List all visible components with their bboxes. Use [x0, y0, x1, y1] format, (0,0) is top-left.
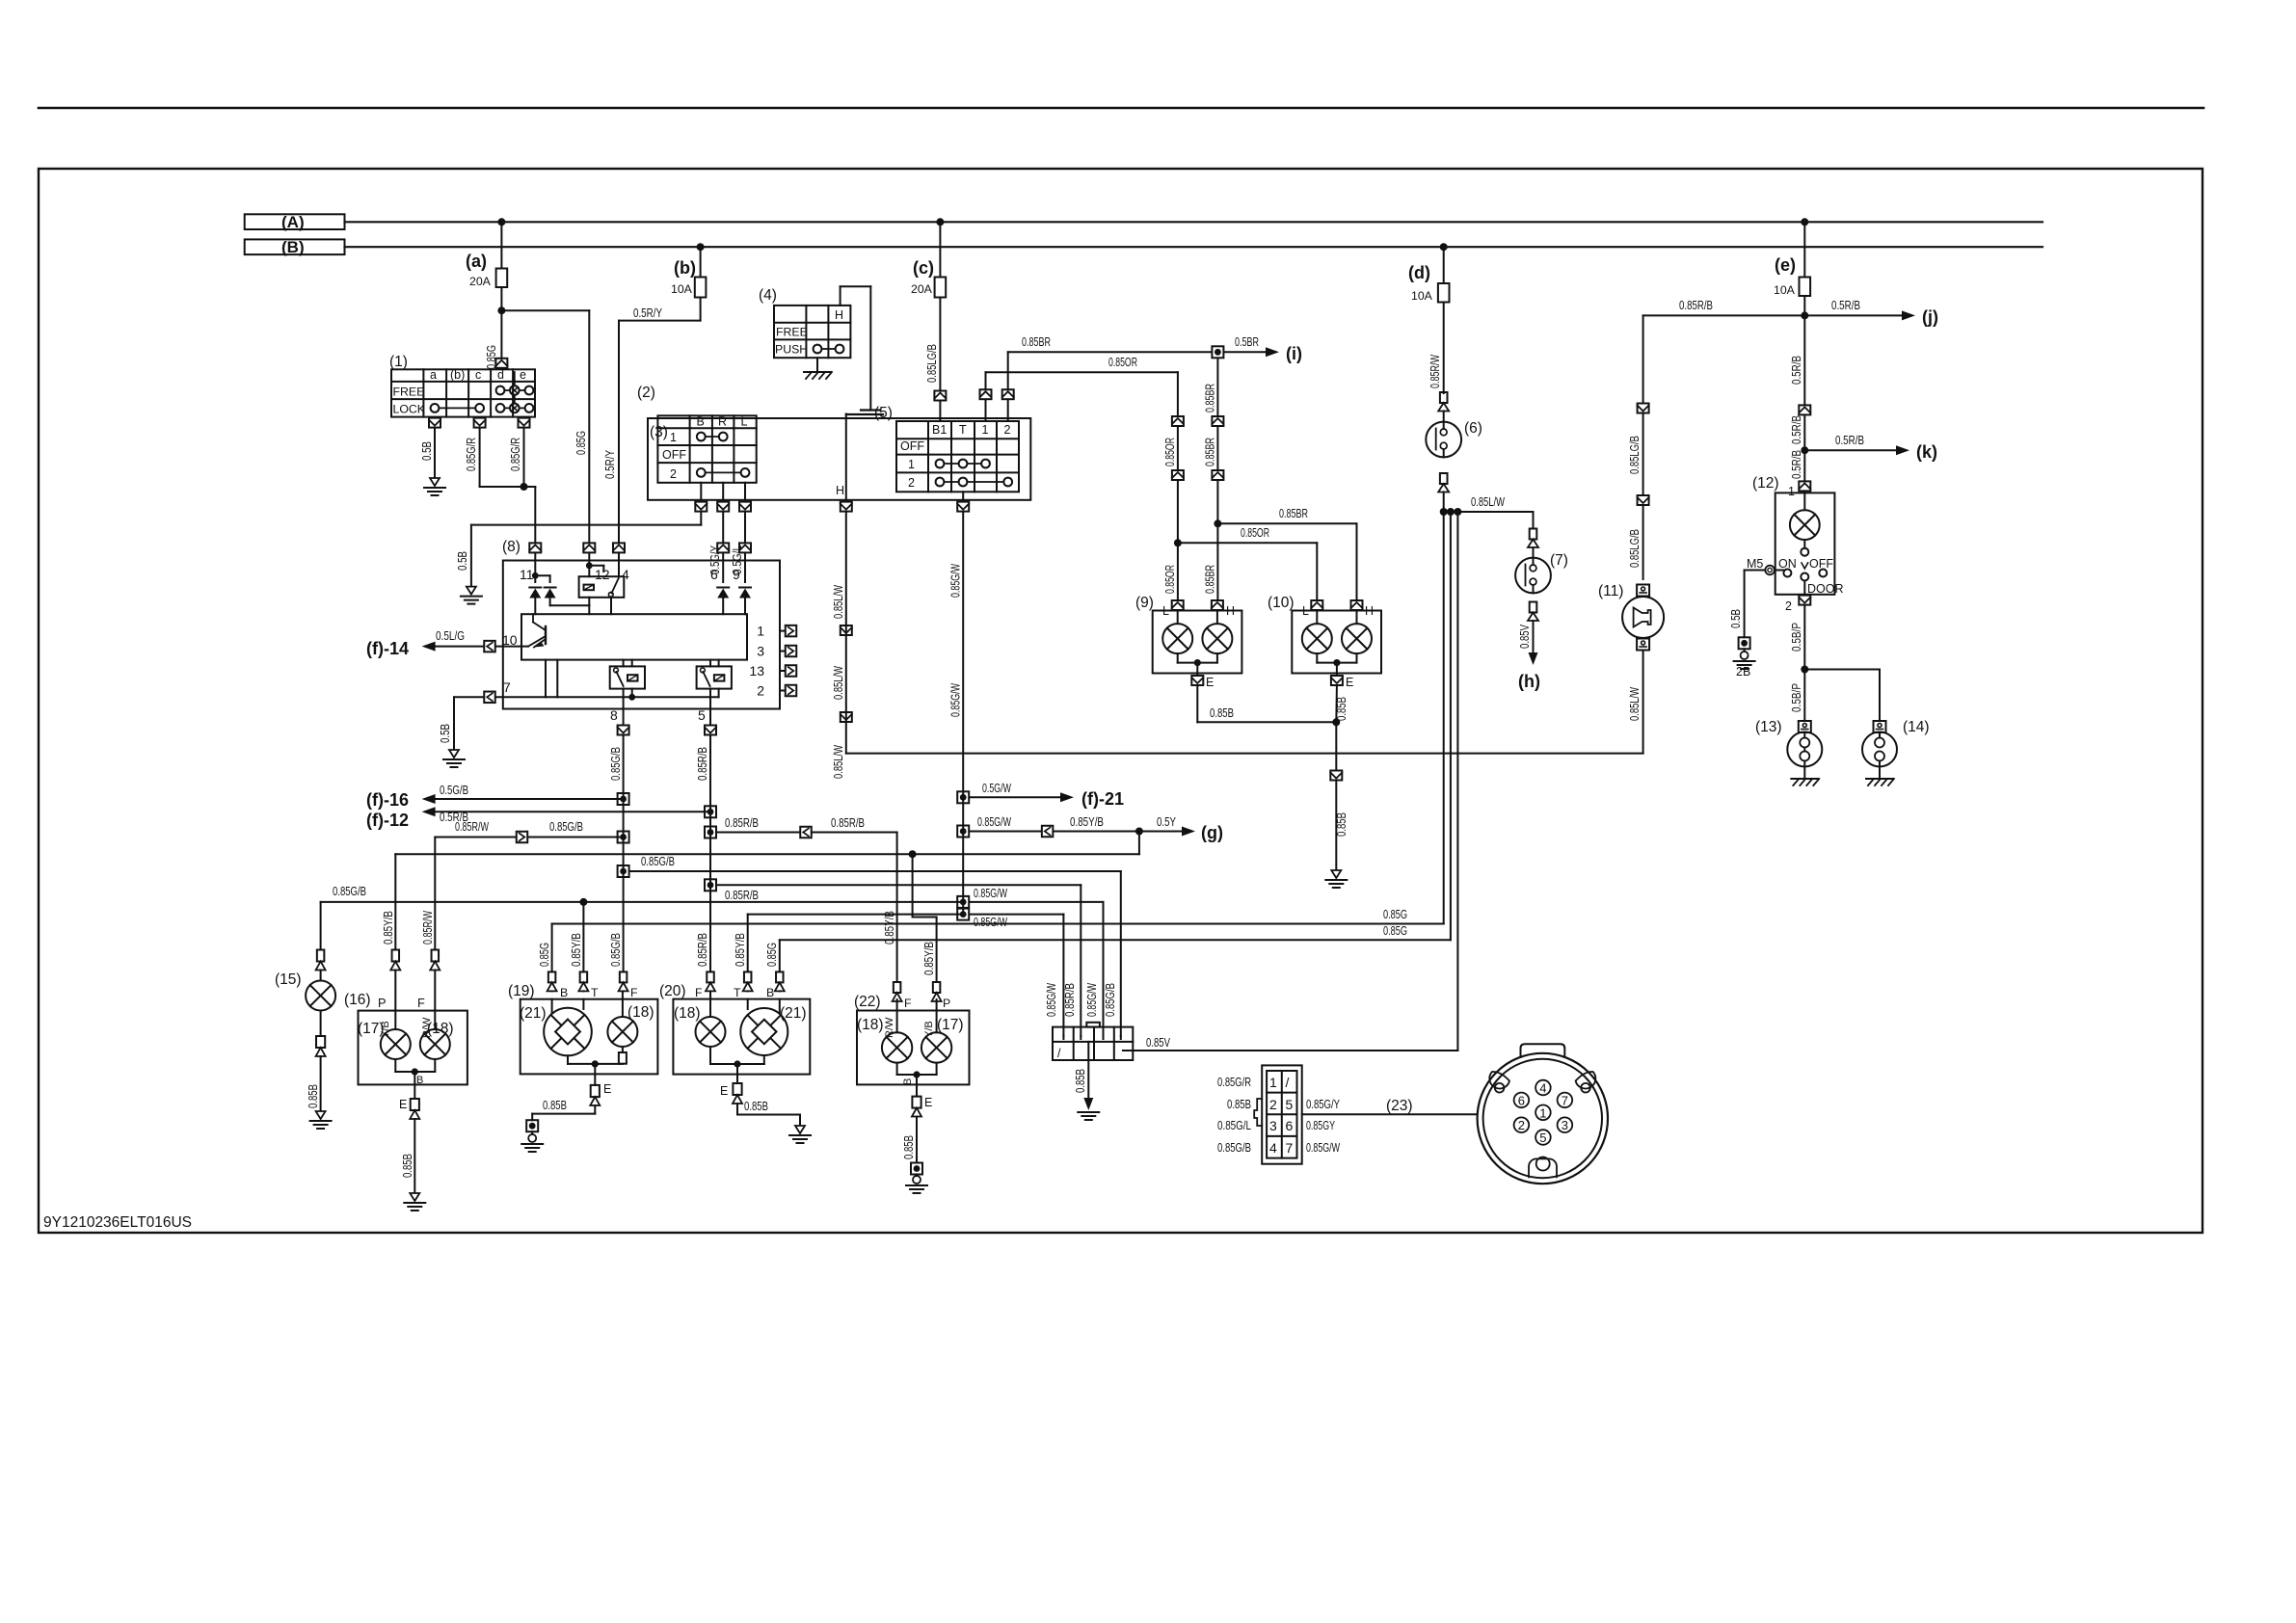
riser B1 — [939, 418, 941, 421]
svg-text:(22): (22) — [854, 994, 881, 1010]
svg-text:(10): (10) — [1268, 595, 1295, 611]
ground under (1) — [430, 478, 440, 486]
svg-text:0.85G: 0.85G — [1383, 924, 1407, 938]
wire 0.85G/B splice to block — [618, 865, 629, 877]
node (19)T tap — [579, 898, 587, 906]
svg-text:6: 6 — [710, 567, 718, 582]
svg-text:0.85OR: 0.85OR — [1163, 565, 1177, 594]
svg-text:(6): (6) — [1464, 420, 1482, 437]
svg-text:0.85B: 0.85B — [543, 1099, 567, 1112]
wire B to ground 0.5B — [700, 513, 702, 525]
svg-text:(g): (g) — [1201, 823, 1223, 842]
wire 0.85R/W — [435, 837, 516, 838]
svg-text:0.5R/B: 0.5R/B — [1790, 450, 1803, 479]
svg-text:/: / — [1286, 1075, 1290, 1090]
svg-text:B: B — [902, 1078, 914, 1085]
node (22)P tap — [909, 850, 917, 858]
node E (10) — [1333, 659, 1340, 666]
svg-text:(i): (i) — [1286, 344, 1302, 363]
svg-text:E: E — [924, 1096, 932, 1109]
svg-text:2: 2 — [908, 476, 915, 490]
svg-text:10A: 10A — [1411, 289, 1433, 303]
wire 0.5B to ground — [434, 429, 436, 478]
svg-text:1: 1 — [670, 431, 677, 444]
svg-text:(9): (9) — [1135, 595, 1154, 611]
svg-text:0.5R/Y: 0.5R/Y — [603, 449, 617, 479]
svg-text:1: 1 — [908, 458, 915, 471]
long wire horn to H — [846, 753, 1643, 755]
bulb (17) — [394, 1011, 396, 1029]
svg-text:0.85BR: 0.85BR — [1279, 507, 1308, 520]
node bus B / fuse d — [1440, 243, 1448, 251]
svg-text:6: 6 — [1518, 1093, 1525, 1107]
pin 11 wiring — [534, 553, 536, 582]
svg-text:0.85Y/B: 0.85Y/B — [1070, 815, 1104, 829]
svg-text:0.5R/Y: 0.5R/Y — [633, 306, 663, 320]
svg-text:(b): (b) — [674, 258, 696, 278]
svg-text:R: R — [718, 415, 727, 429]
block ground 0.85B — [1087, 1042, 1089, 1104]
svg-text:0.85LG/B: 0.85LG/B — [925, 344, 939, 383]
(20)B drop — [779, 940, 781, 971]
pins of (23) — [1535, 1080, 1551, 1096]
contacts (5) row 2 — [936, 478, 945, 487]
svg-text:H: H — [835, 308, 843, 322]
svg-text:0.85R/B: 0.85R/B — [725, 816, 759, 830]
svg-text:(A): (A) — [281, 213, 305, 231]
wire 0.85L/W from horn — [1642, 651, 1644, 754]
node bus B / fuse b — [697, 243, 705, 251]
wire 8 column 0.85G/B — [623, 736, 625, 972]
pin 4 wire — [618, 553, 620, 576]
pins 1 3 13 2 — [780, 630, 785, 632]
terminal M5 — [1765, 566, 1775, 575]
pin 2 connector — [1803, 581, 1805, 595]
output relays in (8) — [610, 666, 645, 688]
svg-text:0.85R/B: 0.85R/B — [1679, 299, 1713, 312]
svg-text:0.85Y/B: 0.85Y/B — [883, 911, 896, 945]
node (k) — [1801, 446, 1808, 454]
svg-text:0.85G/W: 0.85G/W — [1085, 983, 1099, 1017]
svg-text:0.85G/B: 0.85G/B — [1104, 983, 1117, 1017]
fuse (e) 10A — [1803, 222, 1805, 277]
svg-text:B: B — [766, 986, 774, 999]
ground connector 2B — [1739, 637, 1750, 649]
svg-text:E: E — [399, 1098, 407, 1111]
bus wire A — [345, 221, 2043, 223]
svg-text:B1: B1 — [932, 423, 947, 437]
svg-text:0.85G/W: 0.85G/W — [977, 815, 1011, 829]
node E (9) — [1194, 659, 1201, 666]
svg-text:B: B — [560, 986, 568, 999]
connector above (1) — [495, 359, 507, 368]
svg-text:0.85G/B: 0.85G/B — [641, 855, 675, 868]
M5 ground wire 0.5B — [1745, 570, 1766, 572]
svg-text:5: 5 — [1539, 1131, 1546, 1145]
wire 0.5G/Y — [722, 513, 724, 543]
svg-text:(12): (12) — [1752, 475, 1779, 492]
svg-text:0.85L/W: 0.85L/W — [832, 745, 845, 779]
svg-text:0.85Y/B: 0.85Y/B — [922, 942, 936, 975]
wire 0.85G/W (T column) — [962, 513, 964, 915]
connectors below (1) — [429, 418, 441, 428]
svg-text:0.85G: 0.85G — [1383, 908, 1407, 921]
svg-text:3: 3 — [1562, 1118, 1568, 1132]
svg-text:(17): (17) — [937, 1017, 964, 1033]
svg-text:0.85L/W: 0.85L/W — [832, 585, 845, 619]
svg-text:(f)-16: (f)-16 — [366, 790, 409, 810]
svg-text:0.85G/R: 0.85G/R — [509, 438, 522, 471]
riser col 2 — [1007, 400, 1009, 421]
svg-text:B: B — [416, 1075, 423, 1086]
svg-text:0.85B: 0.85B — [307, 1084, 320, 1108]
svg-text:0.85BR: 0.85BR — [1204, 384, 1217, 412]
trailer socket (23) — [1478, 1053, 1608, 1184]
svg-text:(e): (e) — [1775, 255, 1796, 275]
svg-text:FREE: FREE — [776, 326, 808, 339]
svg-text:(18): (18) — [627, 1004, 654, 1021]
wire 0.85V from block — [1123, 1050, 1133, 1051]
pin 12 wiring — [588, 553, 590, 576]
wire 0.5R/B down — [1803, 315, 1805, 404]
svg-text:M5: M5 — [1747, 557, 1763, 571]
svg-text:(h): (h) — [1518, 672, 1540, 691]
svg-text:0.85B: 0.85B — [1335, 812, 1348, 837]
svg-text:c: c — [475, 368, 481, 382]
mount holes — [1489, 1072, 1509, 1089]
wire 0.5B/P from (12) — [1803, 606, 1805, 721]
svg-text:(8): (8) — [502, 539, 521, 555]
wire 0.85BR horizontal + (i) — [1212, 346, 1223, 358]
node B (16) — [412, 1068, 418, 1075]
amplifier block in (8) — [521, 614, 747, 659]
svg-text:8: 8 — [610, 707, 618, 723]
svg-text:0.5R/B: 0.5R/B — [1790, 356, 1803, 385]
svg-text:d: d — [497, 368, 504, 382]
svg-text:0.5B: 0.5B — [420, 441, 434, 461]
ground (14) — [1866, 778, 1893, 780]
svg-text:0.85B: 0.85B — [1210, 706, 1234, 720]
svg-text:0.85L/W: 0.85L/W — [1471, 495, 1505, 509]
svg-text:0.85R/B: 0.85R/B — [831, 816, 865, 830]
svg-text:(15): (15) — [275, 971, 302, 988]
wire 0.85R/B to horn column — [1643, 314, 1805, 316]
svg-text:9: 9 — [733, 567, 740, 582]
connector block — [1086, 1023, 1100, 1027]
svg-text:(18): (18) — [674, 1005, 701, 1022]
svg-text:0.85G/R: 0.85G/R — [465, 438, 478, 471]
svg-text:0.5R/B: 0.5R/B — [1835, 434, 1864, 447]
svg-text:0.85R/B: 0.85R/B — [725, 889, 759, 902]
wire 0.85B to ground — [1335, 686, 1338, 722]
svg-text:0.5BR: 0.5BR — [1235, 335, 1259, 349]
svg-text:0.85OR: 0.85OR — [1108, 356, 1137, 369]
svg-text:7: 7 — [1562, 1093, 1568, 1107]
svg-text:0.5R/B: 0.5R/B — [1831, 299, 1860, 312]
svg-text:0.85B: 0.85B — [401, 1154, 414, 1178]
svg-text:0.85R/B: 0.85R/B — [1063, 983, 1077, 1017]
svg-text:6: 6 — [1286, 1118, 1294, 1133]
ground under (4) — [816, 358, 818, 370]
svg-text:0.5Y: 0.5Y — [1157, 815, 1177, 829]
svg-text:3: 3 — [757, 644, 764, 659]
svg-text:0.85G: 0.85G — [574, 431, 588, 455]
switch contacts in (12) — [1783, 570, 1791, 577]
contacts (3) row 2 — [697, 468, 706, 477]
svg-text:F: F — [630, 986, 638, 999]
svg-text:5: 5 — [1286, 1097, 1294, 1112]
bus label (A) — [245, 214, 345, 229]
pin 1 connector — [1799, 481, 1810, 491]
svg-text:(c): (c) — [913, 258, 934, 278]
svg-text:(16): (16) — [344, 992, 371, 1008]
connector on 0.85LG/B — [934, 391, 946, 401]
svg-text:0.85R/W: 0.85R/W — [455, 820, 489, 834]
contacts (5) row 1 — [936, 460, 945, 468]
svg-text:0.5L/G: 0.5L/G — [436, 629, 465, 643]
svg-text:0.85Y/B: 0.85Y/B — [734, 933, 747, 967]
wire 0.85G/R e — [523, 429, 525, 487]
wire 0.85G no.2 — [1450, 512, 1452, 940]
svg-text:0.85R/W: 0.85R/W — [1428, 355, 1442, 388]
svg-text:0.85R/B: 0.85R/B — [696, 933, 709, 967]
svg-text:(7): (7) — [1550, 552, 1568, 569]
fuse (b) 10A — [700, 247, 702, 277]
svg-text:0.85V: 0.85V — [1518, 624, 1532, 649]
svg-text:E: E — [1206, 676, 1214, 689]
svg-text:0.85G/B: 0.85G/B — [1217, 1141, 1251, 1155]
node 0.5B/P — [1801, 666, 1808, 674]
svg-text:(k): (k) — [1916, 442, 1937, 462]
svg-text:0.85BR: 0.85BR — [1022, 335, 1051, 349]
svg-text:0.85L/W: 0.85L/W — [832, 666, 845, 700]
svg-text:0.85G/R: 0.85G/R — [1217, 1076, 1251, 1089]
relay in (8) — [579, 576, 625, 598]
svg-text:2: 2 — [670, 467, 677, 481]
svg-text:2: 2 — [1518, 1118, 1525, 1132]
branch to (14) — [1804, 669, 1880, 671]
wire 0.85B from (9) — [1196, 686, 1198, 722]
wire 0.5G/L — [744, 513, 746, 543]
svg-text:2: 2 — [1785, 599, 1792, 613]
svg-text:0.85G/W: 0.85G/W — [1045, 983, 1058, 1017]
top rule — [39, 107, 2203, 110]
svg-text:0.85G: 0.85G — [538, 943, 551, 967]
wire 0.85G branch to (8) pin12 — [501, 309, 589, 311]
svg-text:2B: 2B — [1736, 665, 1750, 678]
svg-text:5: 5 — [698, 707, 706, 723]
node bus A / fuse c — [936, 218, 944, 226]
pin 7 — [484, 692, 495, 704]
svg-text:0.85G/B: 0.85G/B — [609, 933, 623, 967]
contacts (4) — [814, 345, 822, 354]
svg-text:0.85G/B: 0.85G/B — [333, 885, 366, 898]
svg-text:9Y1210236ELT016US: 9Y1210236ELT016US — [43, 1214, 192, 1231]
svg-text:0.85G/Y: 0.85G/Y — [1306, 1098, 1340, 1111]
svg-text:PUSH: PUSH — [775, 343, 808, 357]
svg-text:4: 4 — [1539, 1081, 1546, 1096]
main border — [39, 169, 2203, 1233]
node G/R — [521, 483, 528, 491]
svg-text:11: 11 — [520, 567, 534, 582]
risers B R L — [700, 483, 702, 500]
riser col 1 — [985, 400, 987, 421]
svg-text:FREE: FREE — [393, 385, 425, 398]
svg-text:4: 4 — [622, 567, 629, 582]
fuse (a) 20A — [500, 222, 502, 268]
svg-text:(2): (2) — [637, 385, 655, 401]
svg-text:0.85BR: 0.85BR — [1204, 438, 1217, 466]
svg-text:10A: 10A — [671, 282, 693, 296]
svg-text:e: e — [520, 368, 526, 382]
svg-text:2: 2 — [1004, 423, 1011, 437]
node OR — [1174, 539, 1182, 546]
wire 0.85BR vertical — [1216, 359, 1218, 415]
svg-text:(13): (13) — [1755, 719, 1782, 735]
svg-text:(23): (23) — [1386, 1098, 1413, 1114]
connector on 0.5R/B — [1799, 405, 1810, 414]
svg-text:E: E — [720, 1084, 728, 1098]
svg-text:0.85B: 0.85B — [902, 1135, 916, 1159]
svg-text:0.85B: 0.85B — [1227, 1098, 1251, 1111]
wire 0.85G/B to (g) — [395, 853, 1139, 855]
wire 0.85R/B right of 5 — [705, 827, 716, 838]
svg-text:0.85LG/B: 0.85LG/B — [1628, 436, 1642, 474]
lamp in (12) — [1803, 492, 1805, 510]
svg-text:(19): (19) — [508, 983, 535, 999]
svg-text:a: a — [430, 368, 437, 382]
bulb (21) double — [544, 1008, 592, 1056]
svg-text:1: 1 — [757, 624, 764, 639]
connector T below (2) — [957, 502, 969, 512]
svg-text:0.85G: 0.85G — [765, 943, 779, 967]
svg-text:F: F — [695, 986, 703, 999]
svg-text:0.5B/P: 0.5B/P — [1790, 683, 1803, 712]
arrow (g) line — [957, 826, 969, 838]
fuse (c) 20A — [939, 222, 941, 277]
svg-text:0.85G/W: 0.85G/W — [974, 887, 1007, 900]
svg-text:(f)-21: (f)-21 — [1081, 789, 1124, 809]
svg-text:4: 4 — [1269, 1140, 1277, 1156]
wire 0.85R/B splice to block — [705, 879, 716, 891]
svg-text:0.5B: 0.5B — [439, 724, 452, 743]
node below fuse a — [497, 306, 505, 314]
svg-text:(11): (11) — [1598, 583, 1623, 599]
svg-text:1: 1 — [982, 423, 989, 437]
contacts (3) row 1 — [697, 433, 706, 441]
wire 0.85G/B from (15) — [321, 901, 964, 903]
node B (22) — [913, 1071, 920, 1078]
svg-text:0.5G/B: 0.5G/B — [440, 784, 468, 797]
arrow (k) — [1804, 449, 1896, 451]
svg-text:(b): (b) — [450, 368, 465, 382]
svg-text:E: E — [1346, 676, 1353, 689]
wire 0.85V vertical — [1456, 512, 1458, 1051]
riser T — [962, 492, 964, 500]
svg-text:DOOR: DOOR — [1807, 582, 1844, 596]
wire (4)H to horn button — [840, 286, 841, 306]
svg-text:0.85B: 0.85B — [1074, 1069, 1087, 1093]
svg-text:13: 13 — [749, 663, 764, 678]
svg-text:/: / — [1057, 1047, 1061, 1060]
wire 0.85Y/B (20)T — [748, 914, 964, 916]
wire 0.85G no.1 — [1443, 512, 1445, 924]
fuse (d) 10A — [1443, 247, 1445, 283]
svg-text:0.85GY: 0.85GY — [1306, 1119, 1335, 1132]
svg-text:0.85BR: 0.85BR — [1204, 565, 1217, 594]
transistor — [545, 626, 547, 644]
svg-text:0.85OR: 0.85OR — [1163, 438, 1177, 466]
svg-text:T: T — [591, 986, 599, 999]
wire 0.85LG/B down to horn — [1642, 315, 1644, 402]
svg-text:1: 1 — [1539, 1105, 1546, 1120]
svg-text:(20): (20) — [659, 983, 686, 999]
svg-text:E: E — [603, 1082, 611, 1096]
svg-text:(5): (5) — [874, 405, 893, 421]
svg-text:7: 7 — [503, 679, 511, 695]
arrow (f)-21 — [957, 791, 969, 803]
svg-text:0.85G/B: 0.85G/B — [549, 820, 583, 834]
pin table for (23) — [1262, 1065, 1302, 1163]
svg-text:20A: 20A — [469, 275, 492, 288]
svg-text:OFF: OFF — [662, 448, 686, 462]
svg-text:0.85Y/B: 0.85Y/B — [570, 933, 583, 967]
arrow (h) 0.85V — [1533, 621, 1535, 652]
svg-text:F: F — [417, 996, 425, 1010]
svg-text:(f)-12: (f)-12 — [366, 811, 409, 830]
svg-text:0.85OR: 0.85OR — [1241, 526, 1269, 540]
node 0.85L/W x3 — [1440, 508, 1448, 516]
svg-text:0.5B: 0.5B — [456, 551, 469, 571]
svg-text:1: 1 — [1788, 485, 1795, 498]
svg-text:3: 3 — [1269, 1118, 1277, 1133]
connectors below (2) B R L — [695, 502, 707, 512]
svg-text:0.5B/P: 0.5B/P — [1790, 623, 1803, 652]
svg-text:0.85G/W: 0.85G/W — [974, 916, 1007, 929]
svg-text:(d): (d) — [1408, 263, 1430, 282]
bulb (18) — [434, 1011, 436, 1029]
svg-text:0.85G/W: 0.85G/W — [949, 564, 963, 598]
bus label (B) — [245, 239, 345, 254]
switch (6) — [1440, 392, 1448, 403]
svg-text:P: P — [378, 996, 387, 1010]
(19)B drop — [551, 924, 553, 972]
bulb (18) in (19) — [622, 992, 624, 1017]
diodes — [529, 587, 541, 589]
svg-text:(j): (j) — [1922, 307, 1938, 327]
wire 0.85G to (1) — [500, 310, 502, 358]
svg-text:0.85L/W: 0.85L/W — [1628, 687, 1642, 721]
svg-text:(f)-14: (f)-14 — [366, 639, 409, 658]
svg-text:0.5R/B: 0.5R/B — [1790, 415, 1803, 444]
svg-text:2: 2 — [1269, 1097, 1277, 1112]
svg-text:0.5G/W: 0.5G/W — [982, 782, 1011, 795]
switch (7) — [1533, 512, 1535, 529]
wire 0.85OR vertical — [1177, 372, 1179, 415]
contacts FREE row — [496, 386, 505, 395]
svg-text:0.85G/L: 0.85G/L — [1217, 1119, 1251, 1132]
svg-text:L: L — [741, 415, 748, 429]
wire to (23) — [1302, 1113, 1478, 1115]
node bus A / fuse e — [1801, 218, 1808, 226]
wires into block — [1062, 1036, 1064, 1039]
wire 0.85L/W (H column) — [845, 513, 847, 754]
node (j) — [1801, 311, 1808, 319]
svg-text:7: 7 — [1286, 1140, 1294, 1156]
svg-text:0.85B: 0.85B — [1335, 697, 1348, 721]
svg-text:LOCK: LOCK — [393, 403, 426, 416]
svg-text:2: 2 — [757, 683, 764, 699]
